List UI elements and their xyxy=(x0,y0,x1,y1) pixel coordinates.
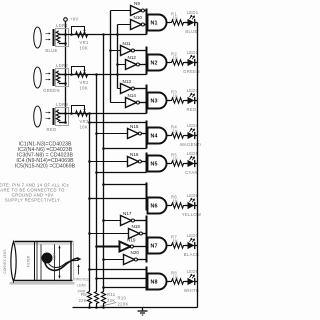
wire output N4 xyxy=(167,135,171,137)
svg-text:VR3: VR3 xyxy=(80,119,90,124)
wire channel row 2 xyxy=(59,74,147,76)
svg-text:IC5(N15-N20) =CD4069B: IC5(N15-N20) =CD4069B xyxy=(15,164,76,170)
wire input of N9 xyxy=(111,10,131,12)
svg-text:VR2: VR2 xyxy=(80,80,90,85)
svg-text:TWISTED: TWISTED xyxy=(74,278,90,282)
LDR LDR3 (RED filter channel) xyxy=(47,102,69,132)
svg-text:N8: N8 xyxy=(151,280,158,286)
wire gate input tap xyxy=(102,183,146,186)
light arrows into LDR2 xyxy=(46,73,51,81)
svg-text:N10: N10 xyxy=(134,15,143,20)
LDR (inset) xyxy=(42,253,57,264)
svg-text:LDR3: LDR3 xyxy=(56,102,68,107)
inverter N20 xyxy=(124,250,140,265)
svg-text:N9: N9 xyxy=(134,1,140,6)
svg-text:R10: R10 xyxy=(118,296,127,301)
resistor R7 1K xyxy=(171,235,185,249)
wire input of N19 xyxy=(95,245,119,248)
resistor R10 220K xyxy=(94,291,128,308)
wire input of N13 xyxy=(118,88,121,90)
svg-text:LDR2: LDR2 xyxy=(56,63,68,68)
wire input of N20 xyxy=(102,258,123,261)
svg-text:10K: 10K xyxy=(80,46,89,51)
resistor R3 1K xyxy=(171,90,185,104)
note: IC designation list xyxy=(15,142,76,170)
svg-text:1K: 1K xyxy=(173,239,179,244)
NAND gate N1 xyxy=(148,15,167,31)
svg-text:1K: 1K xyxy=(173,275,179,280)
wire bus V2 (green channel down-line) xyxy=(95,73,98,290)
lens for LDR1 xyxy=(34,27,42,48)
svg-text:1K: 1K xyxy=(173,16,179,21)
svg-text:N16: N16 xyxy=(130,152,139,157)
svg-text:N13: N13 xyxy=(123,79,132,84)
wire output of N15 xyxy=(142,133,147,135)
svg-text:N7: N7 xyxy=(151,244,158,250)
NAND gate N7 xyxy=(148,238,167,254)
resistor R9 22K xyxy=(78,291,91,308)
potentiometer VR3 10K xyxy=(70,106,89,130)
wire output of N20 xyxy=(138,259,147,261)
NAND gate N8 xyxy=(148,274,167,290)
LED8 WHITE xyxy=(184,269,199,293)
input bar of gate N7 xyxy=(146,216,148,263)
svg-text:N3: N3 xyxy=(151,99,158,105)
light arrows into LDR1 xyxy=(46,33,51,41)
wire channel row 1 xyxy=(59,34,147,36)
LED6 YELLOW xyxy=(182,193,202,217)
svg-text:GREEN: GREEN xyxy=(43,88,60,93)
inverter N9 xyxy=(131,1,145,16)
inverter N11 xyxy=(121,41,135,56)
resistor R4 1K xyxy=(171,125,185,139)
wire bottom ground rail xyxy=(73,306,198,309)
convex lens (inset) xyxy=(3,242,16,282)
inverter N13 xyxy=(121,79,135,94)
svg-text:BLUE: BLUE xyxy=(45,48,57,53)
wire bus V4 (inverter feed line) xyxy=(110,11,112,103)
svg-text:FILTER: FILTER xyxy=(27,255,31,267)
LED5 CYAN xyxy=(185,151,199,175)
inverter N17 xyxy=(121,211,135,226)
svg-text:N17: N17 xyxy=(123,211,132,216)
svg-text:R11: R11 xyxy=(107,292,116,297)
wire output of N9 xyxy=(145,10,147,12)
sensor assembly tube (inset) xyxy=(10,242,75,285)
resistor R5 1K xyxy=(171,153,185,167)
inverter N19 xyxy=(120,238,136,252)
input bar of gate N2 xyxy=(146,47,148,75)
svg-text:10K: 10K xyxy=(80,125,89,130)
wire gate input tap xyxy=(102,286,146,289)
resistor R2 1K xyxy=(171,52,185,66)
svg-text:CYAN: CYAN xyxy=(185,170,198,175)
svg-text:1K: 1K xyxy=(173,199,179,204)
wire gate input tap xyxy=(95,171,146,174)
NAND gate N3 xyxy=(148,93,167,109)
wire +9V rail for sensors xyxy=(65,22,67,123)
wire output of N14 xyxy=(140,102,147,104)
svg-text:SUPPLY RESPECTIVELY: SUPPLY RESPECTIVELY xyxy=(5,198,60,203)
NAND gate N6 xyxy=(148,198,167,214)
svg-text:220K: 220K xyxy=(118,302,129,307)
NAND gate N5 xyxy=(148,156,167,172)
wire output of N18 xyxy=(143,233,147,235)
svg-text:1K: 1K xyxy=(173,129,179,134)
potentiometer VR2 10K xyxy=(70,67,89,91)
lens for LDR2 xyxy=(34,67,42,88)
svg-text:1K: 1K xyxy=(173,157,179,162)
svg-text:BLUE: BLUE xyxy=(185,29,197,34)
wire output N2 xyxy=(167,62,171,64)
wire output N1 xyxy=(167,22,171,24)
wire output of N12 xyxy=(140,64,147,66)
resistor R11 22K xyxy=(101,291,115,308)
LED2 GREEN xyxy=(183,50,200,74)
wire input of N14 xyxy=(111,102,126,104)
note: supply pins note xyxy=(0,183,69,203)
svg-text:LDR1: LDR1 xyxy=(56,23,68,28)
twisted lead pair wires (inset) xyxy=(45,257,82,270)
svg-text:WHITE: WHITE xyxy=(184,288,199,293)
svg-text:LED1: LED1 xyxy=(187,10,199,15)
LDR LDR1 (BLUE filter channel) xyxy=(45,23,68,53)
svg-text:N19: N19 xyxy=(127,238,136,243)
svg-text:1K: 1K xyxy=(173,94,179,99)
LED1 BLUE xyxy=(185,10,199,34)
+9V supply terminal xyxy=(64,16,79,21)
svg-text:RED: RED xyxy=(47,127,57,132)
svg-text:22K: 22K xyxy=(78,298,87,303)
wire input of N10 xyxy=(118,24,131,26)
NAND gate N2 xyxy=(148,55,167,71)
input bar of gate N5 xyxy=(146,153,148,173)
wire input of N12 xyxy=(116,63,125,66)
input bar of gate N8 xyxy=(146,267,148,291)
wire input of N15 xyxy=(95,132,127,135)
lens for LDR3 xyxy=(34,106,42,127)
svg-text:LEAD: LEAD xyxy=(77,284,86,288)
svg-text:1K: 1K xyxy=(173,56,179,61)
inverter N16 xyxy=(128,152,142,167)
svg-text:N20: N20 xyxy=(131,250,140,255)
wire bus V1 (red channel down-line) xyxy=(88,112,91,290)
wire output N6 xyxy=(167,205,171,207)
svg-text:CONVEX LENS: CONVEX LENS xyxy=(3,249,7,274)
wire gate input tap xyxy=(102,147,146,150)
svg-text:N4: N4 xyxy=(151,134,158,140)
svg-text:N18: N18 xyxy=(132,224,141,229)
svg-text:N1: N1 xyxy=(151,21,158,27)
LED3 RED xyxy=(185,88,199,112)
svg-text:N5: N5 xyxy=(151,162,158,168)
potentiometer VR1 10K xyxy=(70,27,89,51)
resistor R1 1K xyxy=(171,12,185,26)
wire output of N16 xyxy=(142,161,147,163)
svg-text:LDR: LDR xyxy=(53,253,57,260)
resistor R6 1K xyxy=(171,195,185,209)
wire gate input tap xyxy=(88,268,146,271)
svg-text:N2: N2 xyxy=(151,61,158,67)
wire output N3 xyxy=(167,100,171,102)
inverter N12 xyxy=(126,55,140,70)
wire output N5 xyxy=(167,163,171,165)
wire bus V5 (inverter feed line) xyxy=(116,25,119,89)
NAND gate N4 xyxy=(148,128,167,144)
wire output of N19 xyxy=(134,246,147,248)
wire output N7 xyxy=(167,245,171,247)
twisted lead pair label + arrow xyxy=(74,264,90,294)
wire channel row 3 xyxy=(59,113,147,115)
svg-text:N14: N14 xyxy=(128,93,137,98)
wire output of N10 xyxy=(145,24,147,26)
wire gate input tap xyxy=(88,121,146,124)
input bar of gate N3 xyxy=(146,85,148,114)
filter (inset) xyxy=(27,242,38,281)
svg-text:10K: 10K xyxy=(80,86,89,91)
wire right rail (LED common) xyxy=(197,23,199,308)
svg-text:RED: RED xyxy=(187,107,197,112)
wire input of N18 xyxy=(88,232,128,235)
resistor R8 1K xyxy=(171,271,185,285)
wire input of N17 xyxy=(102,219,120,222)
wire gate input tap xyxy=(88,197,146,200)
dimension arrow (inset) xyxy=(58,245,60,279)
inverter N18 xyxy=(129,224,143,239)
wire output of N11 xyxy=(135,50,147,52)
node sensor2 taps on +9V rail xyxy=(64,73,67,85)
input bar of gate N1 xyxy=(146,9,148,35)
svg-text:PAIR: PAIR xyxy=(78,290,86,294)
svg-text:N15: N15 xyxy=(130,124,139,129)
inverter N15 xyxy=(128,124,142,139)
wire output of N13 xyxy=(135,88,147,90)
input bar of gate N4 xyxy=(146,121,148,149)
LDR LDR2 (GREEN filter channel) xyxy=(43,63,68,93)
inverter N10 xyxy=(131,15,145,30)
wire output N8 xyxy=(167,281,171,283)
svg-text:N11: N11 xyxy=(123,41,132,46)
svg-text:+9V: +9V xyxy=(70,16,79,21)
svg-text:VR1: VR1 xyxy=(80,40,90,45)
wire bus V3 (blue channel down-line) xyxy=(102,33,105,290)
inverter N14 xyxy=(126,93,140,108)
light arrows into LDR3 xyxy=(46,112,51,120)
wire gate input tap xyxy=(95,277,146,280)
svg-text:N12: N12 xyxy=(128,55,137,60)
svg-text:N6: N6 xyxy=(151,204,158,210)
input bar of gate N6 xyxy=(146,183,148,211)
LED4 MAGENTA xyxy=(180,123,203,147)
wire input of N16 xyxy=(88,160,127,163)
svg-text:22K: 22K xyxy=(107,298,116,303)
wire output of N17 xyxy=(135,220,147,222)
ground xyxy=(138,308,148,316)
wire input of N11 xyxy=(109,49,120,52)
node sensor1 taps on +9V rail xyxy=(64,33,67,45)
LED7 BLACK xyxy=(184,233,199,257)
node sensor3 taps on +9V rail xyxy=(64,112,67,124)
